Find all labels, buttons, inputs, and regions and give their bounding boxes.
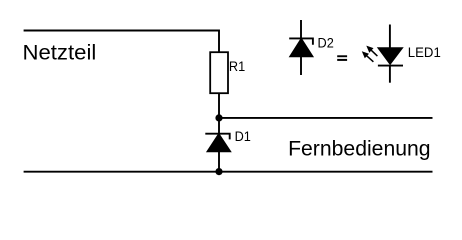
LED1 light arrow 1: [366, 46, 377, 57]
equals sign top bar: [337, 55, 347, 57]
diode D2 triangle: [290, 39, 312, 56]
node A junction dot: [215, 114, 222, 121]
resistor R1: [210, 52, 228, 93]
LED1 light arrow 2: [362, 51, 374, 62]
diode D1 triangle: [208, 134, 231, 151]
node B junction dot: [215, 168, 222, 175]
wire: Netzteil top rail with corner down to R1: [24, 31, 219, 54]
diode D2 top lead: [300, 20, 302, 39]
LED1 top lead: [389, 25, 391, 49]
diode D2 cathode bar with zener hook: [289, 38, 313, 44]
diode D1 cathode bar with zener hook: [205, 134, 229, 140]
svg-text:R1: R1: [229, 58, 245, 74]
svg-text:Netzteil: Netzteil: [23, 41, 97, 65]
svg-text:D1: D1: [235, 128, 251, 144]
LED1 cathode bar: [378, 65, 403, 67]
equals sign bottom bar: [337, 59, 347, 61]
wire: D1 anode to bottom rail: [218, 151, 220, 172]
svg-text:Fernbedienung: Fernbedienung: [288, 137, 431, 161]
LED1 triangle: [379, 48, 402, 64]
svg-text:D2: D2: [318, 35, 334, 51]
diode D2 bottom lead: [300, 56, 302, 75]
wire: bottom rail: [24, 171, 433, 173]
LED1 bottom lead: [389, 66, 391, 83]
wire: middle rail from node A to right: [219, 117, 433, 119]
svg-text:LED1: LED1: [408, 44, 441, 60]
wire: R1 bottom to diode D1: [218, 93, 220, 134]
